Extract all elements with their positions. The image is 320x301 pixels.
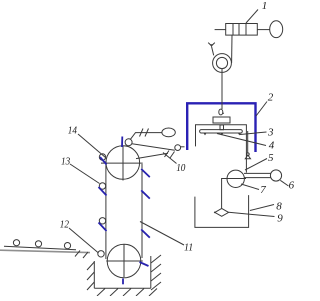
svg-text:5: 5 xyxy=(268,152,274,164)
svg-text:1: 1 xyxy=(262,0,268,12)
blue cleat ticks on belt xyxy=(99,137,150,285)
feed table lower edge xyxy=(0,250,90,252)
pedestal base xyxy=(94,287,151,289)
rotor horizontal centerline xyxy=(225,178,246,180)
blue tick left 2 xyxy=(99,187,107,196)
svg-text:6: 6 xyxy=(289,179,295,191)
svg-text:2: 2 xyxy=(268,92,274,104)
nozzle diamond 9 xyxy=(215,209,229,217)
svg-text:11: 11 xyxy=(184,242,193,254)
clamp tick 2 xyxy=(145,129,149,137)
blue tick right 2 xyxy=(141,190,150,198)
chute line to roller 10 xyxy=(132,144,175,150)
blue frame bracket 2 xyxy=(187,103,255,152)
bottom pulley xyxy=(107,244,141,278)
workpiece ball 1 xyxy=(13,240,19,246)
gripper crossbar 3 xyxy=(200,130,243,133)
workpiece ball 3 xyxy=(64,243,70,249)
label 8 leader xyxy=(250,205,274,211)
svg-text:3: 3 xyxy=(267,126,274,138)
hatch at roller 10 xyxy=(165,151,175,159)
table end tick 1 xyxy=(75,251,80,257)
clamp balloon xyxy=(162,128,175,137)
svg-text:7: 7 xyxy=(260,184,266,196)
gripper frame bracket xyxy=(196,125,247,173)
blue tick right 3 xyxy=(141,229,150,237)
label 12 leader xyxy=(69,228,99,253)
belt 11 left line xyxy=(105,161,107,259)
stem between frame and bar xyxy=(220,125,224,130)
label 11 leader xyxy=(140,222,184,246)
clamp tick 1 xyxy=(140,129,144,137)
roller 10 xyxy=(175,145,181,151)
bottom pulley horizontal centerline xyxy=(106,260,143,262)
guide roller 12 xyxy=(98,251,104,257)
stub right of roller 10 xyxy=(181,146,185,148)
svg-text:14: 14 xyxy=(68,124,78,136)
label 7 leader xyxy=(241,184,259,190)
svg-text:13: 13 xyxy=(61,156,71,168)
top pulley horizontal centerline xyxy=(101,162,143,164)
anchor V symbol xyxy=(208,43,215,48)
roller 6 xyxy=(270,170,281,181)
tension clamp line xyxy=(131,133,162,140)
svg-text:9: 9 xyxy=(277,212,283,224)
label 9 leader xyxy=(229,212,275,216)
feed table rail xyxy=(4,246,76,250)
lower chute line xyxy=(136,153,168,158)
svg-text:8: 8 xyxy=(276,201,282,213)
belt 11 right line xyxy=(141,164,143,258)
guide roller 13 xyxy=(99,183,105,189)
motor housing xyxy=(213,117,230,123)
blue tick left 1 xyxy=(100,157,107,165)
hook knob on motor xyxy=(219,109,224,115)
roller on top of pulley xyxy=(125,139,132,146)
pedestal hatching left xyxy=(87,262,94,290)
pedestal left wall xyxy=(93,261,95,288)
workpiece ball 2 xyxy=(35,241,41,247)
blue centerline dash above top pulley xyxy=(121,137,123,148)
hanging pulley xyxy=(213,54,232,73)
label 5 leader xyxy=(245,159,267,171)
nozzle dot xyxy=(214,212,216,214)
label 14 leader xyxy=(78,134,106,158)
label 10 leader xyxy=(163,153,177,164)
label 2 leader xyxy=(256,102,267,117)
rope left from anchor to pulley xyxy=(212,47,214,56)
table end tick 2 xyxy=(83,252,88,258)
top pulley 14 xyxy=(106,146,140,180)
label 13 leader xyxy=(70,164,100,184)
rope right from cylinder to pulley xyxy=(231,35,233,63)
arm between 7 and 6 xyxy=(244,173,271,177)
pipe from rotor to nozzle xyxy=(222,179,228,209)
svg-text:4: 4 xyxy=(269,140,275,152)
gripper feet 4 xyxy=(203,133,241,135)
pedestal right wall xyxy=(150,256,152,288)
label 3 leader xyxy=(240,132,267,135)
pedestal hatching below xyxy=(97,289,157,297)
plumb bob 5 xyxy=(245,153,250,159)
label 1 leader xyxy=(246,10,258,24)
svg-text:10: 10 xyxy=(176,162,186,174)
balloon knob of cylinder 1 xyxy=(270,21,283,38)
pneumatic cylinder 1 body xyxy=(215,24,270,36)
blue tick right 1 xyxy=(141,169,150,177)
guide roller mid xyxy=(99,218,105,224)
svg-text:12: 12 xyxy=(60,219,70,231)
plumb wire xyxy=(247,131,249,153)
pedestal hatching right xyxy=(151,255,161,290)
blue centerline dash below bottom pulley xyxy=(122,279,124,285)
rope from pulley down to gripper xyxy=(221,69,223,109)
tank 8 xyxy=(195,195,249,227)
rotor circle 7 xyxy=(227,170,244,187)
guide roller top xyxy=(99,154,105,160)
blue tick left 3 xyxy=(99,223,107,232)
label 4 leader xyxy=(217,134,266,146)
bottom pulley vertical centerline xyxy=(123,244,125,277)
blue tick right 4 xyxy=(140,262,149,266)
top pulley vertical centerline xyxy=(122,146,124,181)
label 6 leader xyxy=(280,180,288,186)
